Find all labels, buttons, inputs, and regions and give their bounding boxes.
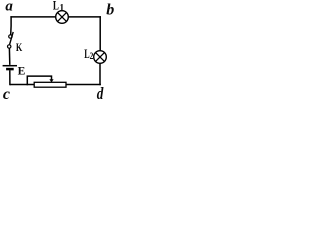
battery E negative plate (short thick) <box>6 68 14 71</box>
rheostat slider arrowhead <box>49 79 53 82</box>
wire top rail right (L1 to b corner) <box>68 16 101 18</box>
switch K lower terminal <box>8 45 11 48</box>
wire battery to c corner <box>9 70 11 85</box>
svg-text:b: b <box>106 2 114 19</box>
lamp L1 circle <box>56 11 69 24</box>
lamp L1 cross <box>58 13 67 22</box>
svg-text:d: d <box>97 84 104 100</box>
wire right vertical upper (b to L2) <box>99 16 101 51</box>
switch K upper terminal <box>9 35 12 38</box>
svg-text:K: K <box>16 42 22 54</box>
svg-text:2: 2 <box>90 51 94 61</box>
wire slider tap: junction up, across, down to arrow <box>27 76 51 85</box>
rheostat body R <box>34 82 66 87</box>
wire top rail left (a to L1) <box>10 16 55 18</box>
wire left vertical (a corner to switch) <box>10 16 12 34</box>
svg-text:L: L <box>53 0 59 13</box>
svg-text:1: 1 <box>59 4 64 14</box>
svg-text:a: a <box>5 0 13 15</box>
svg-text:c: c <box>3 86 10 100</box>
wire right vertical lower (L2 to d) <box>99 63 101 85</box>
switch K blade (open) <box>10 32 14 45</box>
battery E positive plate (long) <box>3 65 17 67</box>
wire bottom rail right (rheostat to d) <box>66 84 101 86</box>
svg-text:E: E <box>18 66 26 78</box>
lamp L2 circle <box>94 51 107 64</box>
wire switch to battery <box>8 48 10 65</box>
wire bottom rail left (c to rheostat) <box>10 84 34 86</box>
lamp L2 cross <box>96 53 105 62</box>
